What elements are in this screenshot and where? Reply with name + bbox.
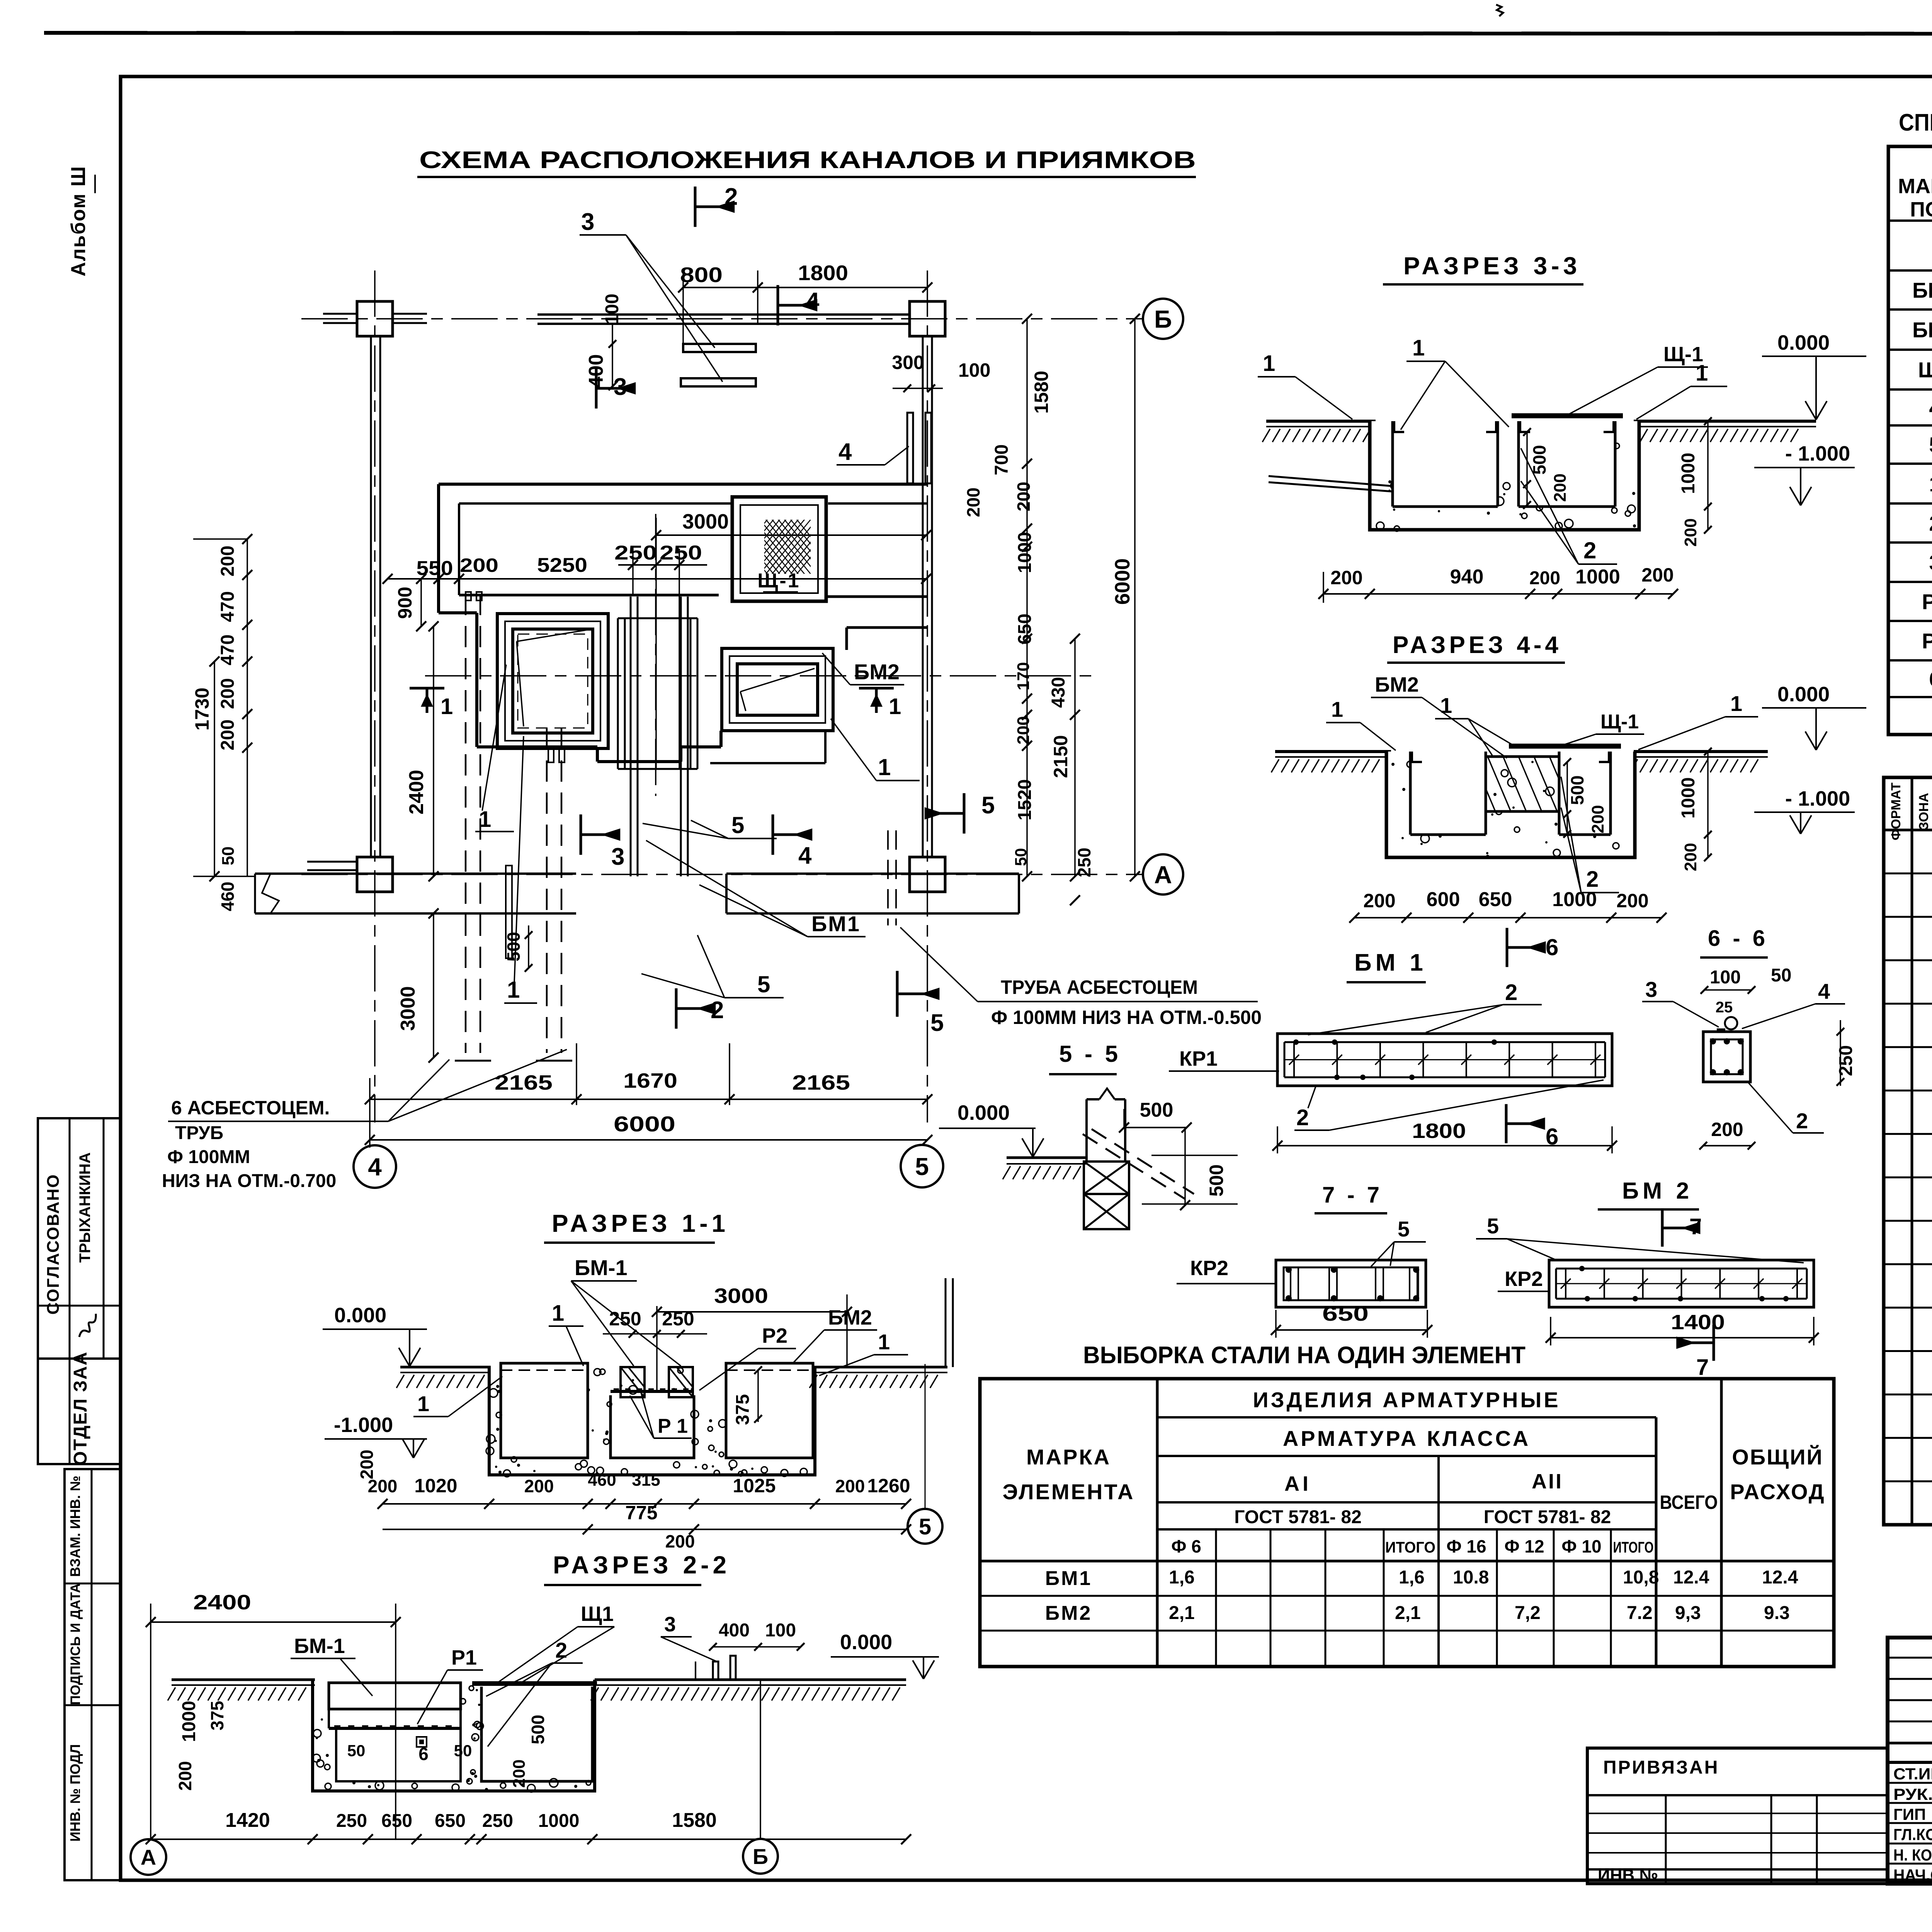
svg-text:ИТОГО: ИТОГО	[1613, 1539, 1654, 1556]
svg-text:ПОЗ.: ПОЗ.	[1910, 198, 1932, 221]
svg-text:Щ-1: Щ-1	[1600, 711, 1639, 733]
svg-text:5250: 5250	[537, 554, 587, 577]
svg-text:250: 250	[1836, 1045, 1856, 1076]
svg-text:ТРЫХАНКИНА: ТРЫХАНКИНА	[77, 1152, 94, 1263]
svg-text:-1.000: -1.000	[334, 1413, 393, 1437]
bottom dims 4-4	[1354, 917, 1662, 918]
svg-text:200: 200	[524, 1476, 554, 1496]
grid circles bottom	[131, 1839, 166, 1875]
section 1-1 concrete trench	[489, 1367, 815, 1475]
section 4-4 ground	[1275, 750, 1391, 753]
section 3-3 concrete trench	[1370, 421, 1639, 530]
svg-text:Р1: Р1	[451, 1646, 477, 1669]
svg-text:ИНВ №: ИНВ №	[1598, 1866, 1658, 1885]
svg-text:200: 200	[1363, 890, 1395, 912]
svg-text:10.8: 10.8	[1453, 1567, 1489, 1588]
svg-text:50: 50	[1012, 848, 1030, 866]
svg-text:ГИП: ГИП	[1893, 1805, 1926, 1823]
pit 1 inner walls 4-4	[1409, 752, 1412, 835]
svg-text:50: 50	[347, 1742, 366, 1760]
svg-text:1000: 1000	[1678, 777, 1699, 819]
svg-text:6000: 6000	[1111, 558, 1134, 605]
svg-text:ИЗДЕЛИЯ АРМАТУРНЫЕ: ИЗДЕЛИЯ АРМАТУРНЫЕ	[1253, 1388, 1560, 1412]
vertical dims 3-3	[1526, 432, 1528, 507]
Shch-1 cover 4-4	[1509, 744, 1621, 749]
svg-text:1420: 1420	[225, 1809, 270, 1832]
svg-text:1: 1	[1331, 697, 1343, 721]
svg-text:А: А	[1154, 861, 1172, 889]
svg-text:Ф 12: Ф 12	[1504, 1536, 1544, 1556]
pit centerline horizontal	[425, 675, 1094, 677]
walls on grid 4/5 vertical	[370, 336, 372, 857]
svg-text:100: 100	[1710, 967, 1741, 988]
svg-text:БМ2: БМ2	[854, 660, 900, 684]
svg-text:650: 650	[1479, 888, 1512, 911]
svg-text:100: 100	[765, 1620, 796, 1641]
grid centerlines	[301, 318, 1143, 320]
svg-text:Щ1: Щ1	[1918, 358, 1932, 382]
svg-text:25: 25	[1716, 999, 1733, 1016]
left margin stamp: inv blocks	[65, 1469, 120, 1880]
svg-text:ГОСТ 5781- 82: ГОСТ 5781- 82	[1234, 1507, 1362, 1527]
svg-text:5: 5	[1487, 1214, 1499, 1238]
svg-text:1800: 1800	[1412, 1119, 1466, 1143]
left outside vertical dim chain	[247, 539, 248, 876]
svg-text:1: 1	[1263, 351, 1275, 376]
svg-text:0.000: 0.000	[1777, 683, 1830, 706]
svg-text:ГЛ.КОНС.: ГЛ.КОНС.	[1893, 1825, 1932, 1844]
svg-text:1000: 1000	[538, 1811, 580, 1831]
svg-text:КР2: КР2	[1190, 1257, 1228, 1280]
svg-text:200: 200	[460, 554, 498, 576]
bottom dims 2-2	[151, 1838, 906, 1840]
svg-text:БМ1: БМ1	[1045, 1567, 1092, 1590]
pit 2 inner walls 4-4	[1558, 752, 1561, 835]
svg-text:МАРКА: МАРКА	[1026, 1445, 1111, 1469]
embedded plates top (pos 3)	[683, 344, 756, 352]
svg-text:ОБЩИЙ: ОБЩИЙ	[1732, 1445, 1823, 1469]
svg-text:6 АСБЕСТОЦЕМ.: 6 АСБЕСТОЦЕМ.	[171, 1097, 330, 1119]
svg-text:460: 460	[588, 1471, 616, 1490]
svg-text:2400: 2400	[405, 770, 428, 815]
svg-text:3: 3	[1929, 550, 1932, 575]
svg-text:3: 3	[664, 1613, 676, 1636]
svg-text:5: 5	[1929, 433, 1932, 457]
svg-text:50: 50	[454, 1742, 472, 1760]
svg-text:200: 200	[1681, 843, 1700, 871]
svg-text:РАЗРЕЗ 1-1: РАЗРЕЗ 1-1	[552, 1209, 729, 1237]
svg-text:СПЕЦИФИКАЦИЯ К СХЕМЕ РАСП: СПЕЦИФИКАЦИЯ К СХЕМЕ РАСПОЛОЖЕНИЯ КАНАЛО…	[1899, 109, 1932, 136]
svg-text:9,3: 9,3	[1675, 1603, 1701, 1623]
svg-text:5: 5	[757, 971, 770, 997]
pit 1 inner walls	[1391, 421, 1394, 507]
bottom dims 1-1	[383, 1503, 906, 1505]
svg-text:250: 250	[609, 1308, 641, 1330]
svg-text:200: 200	[1551, 473, 1570, 502]
svg-text:БМ1: БМ1	[811, 912, 861, 936]
svg-text:ВСЕГО: ВСЕГО	[1660, 1492, 1718, 1513]
svg-text:СХЕМА РАСПОЛОЖЕНИЯ К: СХЕМА РАСПОЛОЖЕНИЯ КАНАЛОВ И ПРИЯМКОВ	[419, 147, 1196, 173]
svg-text:3: 3	[581, 209, 594, 235]
svg-text:700: 700	[992, 444, 1012, 475]
svg-text:БМ1: БМ1	[1912, 278, 1932, 303]
svg-text:6: 6	[1546, 1124, 1558, 1150]
svg-text:ТРУБ: ТРУБ	[175, 1123, 223, 1143]
svg-text:0.000: 0.000	[334, 1304, 386, 1327]
pipe sleeve rects	[506, 866, 512, 958]
svg-text:Ф 100ММ НИЗ НА ОТМ.-0.500: Ф 100ММ НИЗ НА ОТМ.-0.500	[991, 1007, 1262, 1028]
R1 grate	[611, 1390, 694, 1393]
svg-text:900: 900	[394, 587, 416, 619]
svg-text:5: 5	[919, 1514, 931, 1539]
svg-text:ВЫБОРКА СТАЛИ НА ОДИН: ВЫБОРКА СТАЛИ НА ОДИН ЭЛЕМЕНТ	[1083, 1342, 1526, 1369]
svg-text:1000: 1000	[1575, 566, 1620, 588]
channel centerline vertical	[655, 514, 656, 796]
svg-text:2165: 2165	[792, 1071, 850, 1094]
svg-text:1000: 1000	[1678, 453, 1699, 494]
pit complex outline	[439, 483, 927, 486]
svg-text:Ф 16: Ф 16	[1446, 1536, 1486, 1556]
svg-text:1000: 1000	[1552, 888, 1597, 911]
svg-text:430: 430	[1048, 677, 1069, 708]
svg-text:1: 1	[1412, 335, 1425, 361]
svg-text:650: 650	[435, 1811, 466, 1831]
svg-text:5: 5	[981, 792, 995, 819]
svg-text:12.4: 12.4	[1762, 1567, 1798, 1588]
svg-text:200: 200	[665, 1531, 695, 1551]
svg-text:ВЗАМ. ИНВ. №: ВЗАМ. ИНВ. №	[67, 1476, 83, 1577]
svg-text:200: 200	[1711, 1119, 1743, 1140]
svg-text:200: 200	[218, 546, 238, 577]
svg-text:650: 650	[1322, 1302, 1369, 1325]
5-5 dashed anchor	[1083, 1134, 1185, 1199]
svg-text:470: 470	[218, 591, 238, 622]
svg-text:200: 200	[357, 1450, 377, 1480]
svg-text:100: 100	[602, 294, 622, 325]
svg-text:200: 200	[1330, 567, 1362, 588]
svg-text:1025: 1025	[733, 1475, 776, 1497]
svg-text:300: 300	[892, 352, 924, 373]
svg-text:3000: 3000	[397, 986, 419, 1031]
svg-text:2: 2	[711, 997, 724, 1024]
svg-text:650: 650	[381, 1811, 412, 1831]
svg-text:2: 2	[1296, 1105, 1309, 1130]
svg-text:КР1: КР1	[1179, 1047, 1218, 1070]
svg-text:200: 200	[835, 1476, 865, 1496]
svg-text:250: 250	[614, 542, 657, 564]
svg-text:4: 4	[1818, 979, 1830, 1003]
rim caps (pos 1 embedded angles)	[1393, 431, 1404, 433]
svg-text:3: 3	[614, 374, 627, 400]
svg-text:Ф 6: Ф 6	[1171, 1536, 1201, 1556]
svg-text:500: 500	[1529, 445, 1549, 475]
svg-text:50: 50	[219, 847, 238, 866]
svg-text:БМ 2: БМ 2	[1622, 1178, 1693, 1204]
right outside vertical dim chains	[1026, 319, 1028, 876]
section 1-1 ground	[400, 1366, 491, 1369]
small channel marks at right ground 2-2	[713, 1662, 718, 1680]
svg-text:БМ2: БМ2	[1912, 318, 1932, 342]
svg-text:4: 4	[806, 288, 820, 315]
svg-text:- 1.000: - 1.000	[1785, 787, 1850, 810]
svg-text:500: 500	[1567, 776, 1587, 805]
section flags	[694, 187, 697, 227]
svg-text:7,2: 7,2	[1515, 1603, 1541, 1623]
BM2 beam block hatched	[1486, 757, 1559, 811]
svg-text:АII: АII	[1532, 1470, 1563, 1493]
table 1 grid	[1888, 146, 1932, 735]
svg-text:1: 1	[878, 754, 891, 780]
svg-text:5: 5	[915, 1153, 929, 1180]
svg-text:2,1: 2,1	[1395, 1603, 1421, 1623]
svg-text:Щ1: Щ1	[581, 1602, 614, 1626]
svg-text:1670: 1670	[623, 1069, 677, 1092]
svg-text:470: 470	[218, 634, 238, 665]
svg-text:1: 1	[1730, 691, 1742, 716]
svg-text:ПРИВЯЗАН: ПРИВЯЗАН	[1603, 1757, 1719, 1778]
svg-text:200: 200	[1681, 518, 1700, 546]
svg-text:1: 1	[552, 1301, 564, 1326]
svg-text:5: 5	[1398, 1217, 1410, 1241]
section 1-1 cut flags (vertical)	[410, 687, 444, 690]
rim caps 4-4	[1410, 761, 1422, 763]
svg-text:200: 200	[1014, 482, 1034, 512]
svg-text:БМ2: БМ2	[1045, 1602, 1092, 1624]
BM-1 beams hatched (section)	[621, 1367, 645, 1397]
svg-text:7: 7	[1689, 1214, 1702, 1239]
svg-text:315: 315	[632, 1471, 660, 1490]
left margin stamp: soglasovano block	[38, 1118, 120, 1464]
svg-text:1000: 1000	[179, 1701, 199, 1742]
svg-text:Б: Б	[1154, 305, 1172, 333]
svg-text:Щ-1: Щ-1	[757, 570, 800, 592]
svg-text:2: 2	[1583, 537, 1596, 563]
svg-text:2150: 2150	[1050, 735, 1071, 778]
svg-text:- 1.000: - 1.000	[1785, 442, 1850, 465]
pipe entering left	[1269, 476, 1393, 486]
svg-text:ИНВ. № ПОДЛ: ИНВ. № ПОДЛ	[67, 1744, 83, 1842]
vertical dims 4-4	[1566, 762, 1568, 835]
svg-text:1: 1	[1440, 693, 1452, 718]
svg-text:РУК. ГР.: РУК. ГР.	[1893, 1785, 1932, 1803]
svg-text:1580: 1580	[1031, 371, 1052, 413]
svg-text:2: 2	[555, 1638, 567, 1662]
svg-text:500: 500	[503, 932, 524, 962]
svg-text:БМ-1: БМ-1	[575, 1255, 628, 1280]
svg-text:0.000: 0.000	[840, 1631, 892, 1654]
svg-text:170: 170	[1014, 662, 1033, 690]
svg-text:Альбом Ш: Альбом Ш	[67, 166, 90, 277]
svg-text:1: 1	[878, 1330, 890, 1354]
svg-text:200: 200	[1588, 805, 1607, 833]
grid circles	[1143, 299, 1183, 339]
svg-text:4: 4	[798, 842, 812, 869]
pit 2 inner walls	[1517, 421, 1520, 507]
svg-text:1: 1	[889, 694, 901, 719]
privyazan block	[1587, 1748, 1888, 1884]
svg-text:5 - 5: 5 - 5	[1059, 1041, 1121, 1067]
svg-text:3: 3	[611, 844, 624, 870]
svg-text:РАЗРЕЗ 2-2: РАЗРЕЗ 2-2	[553, 1551, 730, 1579]
svg-text:2400: 2400	[193, 1591, 251, 1614]
svg-text:ЭЛЕМЕНТА: ЭЛЕМЕНТА	[1003, 1480, 1135, 1504]
left pit nested squares	[497, 614, 608, 748]
svg-text:12.4: 12.4	[1673, 1567, 1709, 1588]
svg-text:400: 400	[719, 1620, 750, 1641]
svg-text:Ф 100ММ: Ф 100ММ	[167, 1147, 250, 1167]
svg-text:3000: 3000	[714, 1284, 768, 1308]
svg-text:50: 50	[1771, 965, 1791, 986]
svg-text:АРМАТУРА КЛАССА: АРМАТУРА КЛАССА	[1283, 1426, 1531, 1451]
svg-text:250: 250	[660, 542, 702, 564]
svg-text:ФОРМАТ: ФОРМАТ	[1889, 782, 1903, 840]
title block grid	[1888, 1657, 1932, 1659]
svg-text:600: 600	[1427, 888, 1460, 911]
scan artifacts top/bottom center	[1496, 5, 1503, 16]
svg-text:2: 2	[1929, 511, 1932, 536]
svg-text:КР2: КР2	[1505, 1267, 1543, 1291]
svg-text:375: 375	[207, 1701, 227, 1731]
svg-text:7: 7	[1696, 1355, 1709, 1380]
svg-text:1580: 1580	[672, 1809, 717, 1832]
svg-text:2: 2	[724, 184, 738, 210]
svg-text:1: 1	[479, 807, 491, 832]
walls on grid B	[323, 313, 357, 315]
svg-text:1: 1	[417, 1391, 429, 1416]
Shch-1 cover plate on right pit	[1512, 413, 1623, 418]
svg-text:0.000: 0.000	[1777, 331, 1830, 354]
svg-text:775: 775	[625, 1502, 657, 1524]
svg-text:3000: 3000	[682, 510, 729, 533]
svg-text:ТРУБА АСБЕСТОЦЕМ: ТРУБА АСБЕСТОЦЕМ	[1001, 976, 1198, 998]
columns	[357, 301, 393, 336]
svg-text:РАЗРЕЗ 3-3: РАЗРЕЗ 3-3	[1403, 252, 1581, 280]
svg-text:5: 5	[930, 1010, 944, 1036]
svg-text:РАСХОД: РАСХОД	[1730, 1480, 1825, 1504]
svg-text:250: 250	[1074, 848, 1094, 878]
svg-text:Б: Б	[753, 1844, 768, 1869]
right pit (BM2)	[722, 648, 833, 731]
svg-text:250: 250	[482, 1811, 513, 1831]
svg-text:2,1: 2,1	[1169, 1603, 1195, 1623]
svg-text:200: 200	[175, 1761, 195, 1791]
svg-text:1260: 1260	[867, 1475, 910, 1497]
section 3-3 ground	[1266, 420, 1376, 423]
svg-text:4: 4	[838, 439, 852, 465]
svg-text:Ф 10: Ф 10	[1561, 1536, 1601, 1556]
wall stub at axis 5 right	[945, 1278, 947, 1367]
svg-text:0.000: 0.000	[957, 1101, 1010, 1124]
svg-text:2: 2	[1796, 1109, 1808, 1133]
Shch-1 cover	[732, 497, 826, 601]
wall stubs below A axis	[307, 869, 357, 871]
svg-text:200: 200	[218, 678, 238, 709]
svg-text:Р2: Р2	[762, 1324, 787, 1347]
svg-text:650: 650	[1015, 614, 1035, 645]
svg-text:7.2: 7.2	[1627, 1603, 1653, 1623]
svg-text:АI: АI	[1284, 1472, 1311, 1495]
svg-text:Р 1: Р 1	[658, 1415, 688, 1437]
svg-text:940: 940	[1450, 566, 1484, 588]
title block outer	[1888, 1638, 1932, 1884]
svg-text:4: 4	[1929, 396, 1932, 420]
svg-text:375: 375	[733, 1394, 753, 1425]
svg-text:250: 250	[336, 1811, 367, 1831]
svg-text:1020: 1020	[414, 1475, 457, 1497]
svg-text:СТ.ИНЖ.: СТ.ИНЖ.	[1893, 1765, 1932, 1783]
svg-text:100: 100	[958, 359, 990, 381]
5-5 floor slab left	[1007, 1156, 1087, 1159]
svg-text:9.3: 9.3	[1764, 1603, 1790, 1623]
table 2 grid	[1884, 777, 1932, 1525]
svg-text:6: 6	[1929, 667, 1932, 691]
svg-text:Р2: Р2	[1922, 629, 1932, 653]
svg-text:6 - 6: 6 - 6	[1708, 926, 1768, 951]
svg-text:1400: 1400	[1671, 1311, 1725, 1334]
bottom dims 3-3	[1323, 593, 1673, 595]
svg-text:4: 4	[368, 1153, 382, 1181]
svg-text:ГОСТ 5781- 82: ГОСТ 5781- 82	[1484, 1507, 1611, 1527]
svg-text:550: 550	[417, 557, 453, 580]
svg-text:200: 200	[510, 1759, 529, 1787]
opening under beam	[1486, 810, 1559, 813]
svg-text:200: 200	[1616, 890, 1648, 912]
svg-text:1: 1	[1929, 472, 1932, 496]
5-5 detail: column with x-braces	[1085, 1099, 1088, 1162]
svg-text:200: 200	[1641, 564, 1673, 586]
svg-text:БМ 1: БМ 1	[1354, 949, 1427, 976]
svg-text:200: 200	[368, 1476, 398, 1496]
svg-text:НАЧ.ОТД: НАЧ.ОТД	[1893, 1866, 1932, 1884]
svg-text:1000: 1000	[1015, 532, 1035, 573]
svg-text:1730: 1730	[191, 687, 213, 730]
svg-text:Н. КОНТР.: Н. КОНТР.	[1893, 1846, 1932, 1864]
svg-text:БМ2: БМ2	[828, 1306, 872, 1329]
svg-text:БМ2: БМ2	[1375, 673, 1419, 696]
svg-text:460: 460	[218, 882, 238, 912]
pos4 rods right top	[907, 413, 913, 483]
P2 grate dashed	[501, 1369, 588, 1371]
svg-text:СОГЛАСОВАНО: СОГЛАСОВАНО	[44, 1174, 63, 1315]
foundation bands at A axis	[255, 872, 576, 875]
steel table grid	[980, 1379, 1834, 1667]
svg-text:500: 500	[528, 1715, 548, 1745]
svg-text:ЗОНА: ЗОНА	[1917, 793, 1931, 830]
trench 2-2	[313, 1680, 595, 1791]
dashed pipes	[465, 594, 467, 1053]
svg-text:200: 200	[963, 488, 983, 517]
svg-text:200: 200	[218, 719, 238, 750]
svg-text:6000: 6000	[614, 1112, 675, 1136]
svg-text:ОТДЕЛ ЗАА: ОТДЕЛ ЗАА	[70, 1351, 91, 1466]
svg-text:Р1: Р1	[1922, 590, 1932, 614]
svg-text:МАРКА: МАРКА	[1898, 175, 1932, 198]
svg-text:1: 1	[1696, 361, 1708, 386]
svg-text:ИТОГО: ИТОГО	[1385, 1539, 1435, 1556]
svg-text:6: 6	[1546, 934, 1558, 960]
svg-text:500: 500	[1140, 1099, 1173, 1121]
svg-text:200: 200	[1529, 568, 1560, 588]
svg-text:БМ-1: БМ-1	[294, 1634, 345, 1658]
svg-text:НИЗ НА ОТМ.-0.700: НИЗ НА ОТМ.-0.700	[162, 1171, 336, 1191]
svg-text:7 - 7: 7 - 7	[1322, 1182, 1383, 1207]
svg-text:400: 400	[585, 354, 607, 388]
svg-text:1800: 1800	[798, 261, 848, 285]
svg-text:ПОДПИСЬ И ДАТА: ПОДПИСЬ И ДАТА	[68, 1583, 83, 1705]
svg-text:2: 2	[1505, 980, 1517, 1005]
svg-text:1: 1	[440, 694, 453, 719]
svg-text:1520: 1520	[1015, 779, 1035, 821]
